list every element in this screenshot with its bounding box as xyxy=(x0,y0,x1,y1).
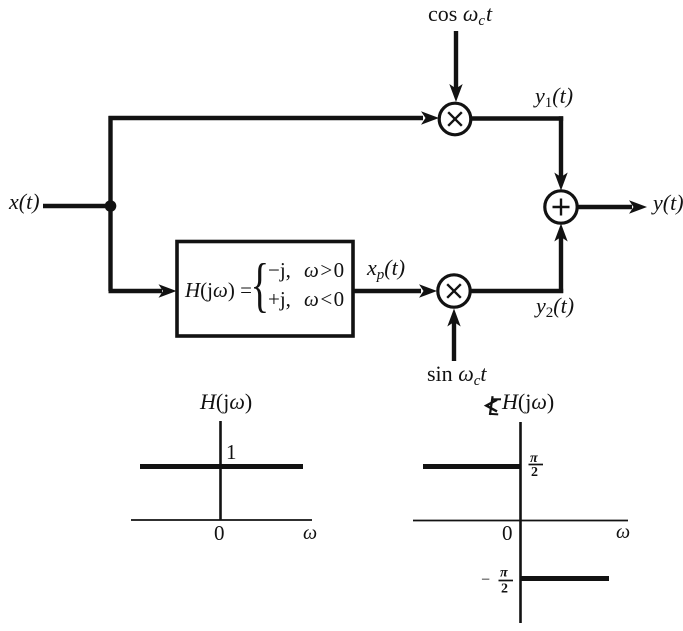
svg-text:{: { xyxy=(251,252,270,318)
label y(t) xyxy=(651,190,683,215)
wire top branch to multiplier xyxy=(109,111,440,124)
svg-text:1: 1 xyxy=(226,440,237,464)
svg-text:+j,ω<0: +j,ω<0 xyxy=(268,287,346,311)
wire box output to lower multiplier xyxy=(353,284,437,297)
svg-text:ω: ω xyxy=(616,521,630,543)
svg-text:π: π xyxy=(500,566,508,581)
label 0 xyxy=(214,521,225,545)
svg-text:0: 0 xyxy=(214,521,225,545)
wire input from x(t) to junction xyxy=(43,204,112,208)
label -pi/2 xyxy=(481,566,513,597)
axis angle horizontal xyxy=(413,520,628,522)
adder circle xyxy=(545,191,577,223)
wire arrow sin into bottom multiplier xyxy=(447,309,460,362)
wire output of adder xyxy=(577,200,647,213)
level line magnitude = 1 xyxy=(140,464,303,469)
svg-text:ω: ω xyxy=(303,522,317,544)
svg-text:y2(t): y2(t) xyxy=(534,293,574,321)
label y1(t) xyxy=(533,83,573,111)
wire lower branch into filter box xyxy=(109,284,177,297)
multiplier top circle xyxy=(439,103,471,135)
svg-text:0: 0 xyxy=(502,521,513,545)
svg-text:y1(t): y1(t) xyxy=(533,83,573,111)
label y2(t) xyxy=(534,293,574,321)
wire from bottom multiplier to adder xyxy=(470,224,568,294)
label angle H(jw) plot title xyxy=(486,389,554,415)
label H(jw) equation inside box xyxy=(184,252,346,318)
svg-text:H(jω): H(jω) xyxy=(501,389,554,414)
svg-text:−j,ω>0: −j,ω>0 xyxy=(268,258,346,282)
label H(jw) magnitude plot title xyxy=(199,389,252,414)
label omega angle plot xyxy=(616,521,630,543)
label sin wct xyxy=(427,361,487,389)
wire arrow cos into top multiplier xyxy=(449,31,462,102)
svg-text:−: − xyxy=(481,572,490,589)
label 0 angle plot xyxy=(502,521,513,545)
svg-text:2: 2 xyxy=(501,582,508,597)
axis angle vertical xyxy=(519,422,522,623)
filter box H(jw) xyxy=(177,242,353,337)
level line +pi/2 xyxy=(423,464,521,469)
svg-text:H(jω) =: H(jω) = xyxy=(184,278,252,302)
axis magnitude horizontal xyxy=(131,519,312,521)
label 1 xyxy=(226,440,237,464)
svg-text:y(t): y(t) xyxy=(651,190,683,215)
svg-text:cos ωct: cos ωct xyxy=(428,1,493,29)
level line -pi/2 xyxy=(521,576,609,581)
label cos wct xyxy=(428,1,493,29)
svg-text:x(t): x(t) xyxy=(8,189,40,214)
label xp(t) xyxy=(366,255,405,283)
wire from top multiplier to adder xyxy=(471,116,568,190)
node junction dot xyxy=(105,200,117,212)
multiplier bottom circle xyxy=(438,275,470,307)
svg-text:2: 2 xyxy=(531,465,538,480)
svg-text:xp(t): xp(t) xyxy=(366,255,405,283)
label x(t) xyxy=(8,189,40,214)
label pi/2 xyxy=(529,451,544,480)
label omega xyxy=(303,522,317,544)
axis magnitude vertical xyxy=(219,421,222,521)
svg-text:H(jω): H(jω) xyxy=(199,389,252,414)
wire vertical trunk xyxy=(108,116,112,291)
svg-text:sin ωct: sin ωct xyxy=(427,361,487,389)
